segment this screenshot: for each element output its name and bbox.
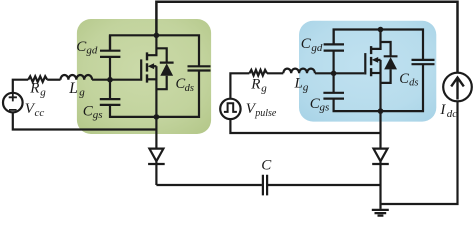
inductor L_g (left) bbox=[61, 75, 93, 80]
svg-text:C: C bbox=[301, 36, 312, 52]
MOSFET Q1 body diode bbox=[156, 48, 173, 89]
MOSFET Q2 source stub bbox=[371, 72, 380, 74]
MOSFET Q2 source vertical bbox=[379, 60, 381, 111]
bottom wire left of C bbox=[156, 184, 262, 186]
capacitor C_gs (left) bbox=[100, 80, 121, 105]
drain node dot (left) bbox=[154, 33, 160, 39]
svg-text:gs: gs bbox=[93, 109, 103, 121]
capacitor C_ds (left) bbox=[188, 66, 211, 70]
svg-text:g: g bbox=[79, 86, 85, 98]
gate node dot (left) bbox=[107, 77, 113, 83]
MOSFET Q1 channel segments bbox=[146, 52, 148, 82]
MOSFET Q2 arrow bbox=[372, 57, 379, 63]
svg-text:L: L bbox=[294, 75, 303, 91]
current source I_dc bbox=[443, 73, 472, 102]
bottom wire right of C bbox=[267, 184, 380, 186]
MOSFET Q1 gate plate bbox=[140, 59, 142, 80]
MOSFET Q2 body stub bbox=[378, 59, 381, 61]
svg-text:ds: ds bbox=[409, 78, 418, 89]
capacitor C_ds (right) bbox=[412, 60, 435, 64]
svg-text:gs: gs bbox=[320, 102, 330, 114]
svg-text:I: I bbox=[439, 102, 446, 118]
svg-text:C: C bbox=[261, 158, 272, 174]
svg-text:g: g bbox=[40, 87, 46, 99]
MOSFET Q2 channel segments bbox=[370, 46, 372, 76]
capacitor C_gd (right) bbox=[324, 30, 344, 74]
MOSFET Q2 drain stub bbox=[371, 30, 380, 49]
svg-text:gd: gd bbox=[311, 42, 323, 54]
wire resistor to inductor (right) bbox=[267, 72, 283, 74]
MOSFET Q1 arrow bbox=[148, 63, 155, 69]
capacitor C (DC-link) bbox=[263, 175, 267, 196]
inductor L_g (right) bbox=[283, 69, 315, 74]
MOSFET Q1 source vertical bbox=[155, 66, 157, 117]
capacitor C_gd (left) bbox=[100, 35, 120, 79]
MOSFET Q2 body diode bbox=[381, 42, 398, 83]
bottom rail of right block bbox=[334, 64, 423, 111]
blue highlight block (right device region) bbox=[299, 21, 436, 122]
MOSFET Q1 drain stub bbox=[147, 35, 156, 55]
svg-text:C: C bbox=[399, 71, 409, 87]
source down wire (right) bbox=[379, 111, 381, 148]
svg-text:pulse: pulse bbox=[254, 108, 277, 119]
V_cc return wire bbox=[13, 112, 157, 129]
resistor R_g (left) bbox=[28, 76, 47, 82]
svg-text:ds: ds bbox=[185, 83, 194, 94]
MOSFET Q2 gate plate bbox=[364, 53, 366, 74]
I_dc arrow bbox=[451, 78, 464, 100]
wire resistor to inductor (left) bbox=[47, 79, 60, 81]
svg-text:cc: cc bbox=[35, 107, 45, 119]
ground bbox=[372, 210, 389, 216]
svg-text:g: g bbox=[303, 81, 309, 93]
svg-text:gd: gd bbox=[86, 45, 98, 57]
svg-text:L: L bbox=[68, 80, 78, 97]
top rail of right block bbox=[334, 30, 423, 60]
source down wire (left) bbox=[155, 117, 157, 148]
voltage source V_cc bbox=[3, 93, 23, 113]
green highlight block (left device region) bbox=[77, 19, 211, 134]
svg-text:g: g bbox=[261, 83, 267, 95]
resistor R_g (right) bbox=[249, 70, 267, 76]
drain node dot (right) bbox=[378, 27, 384, 33]
V_pulse pulse glyph bbox=[224, 103, 237, 112]
gate node dot (right) bbox=[331, 71, 337, 77]
diode D2 (right leg) bbox=[374, 149, 388, 162]
wire inductor to gate (right) bbox=[315, 72, 364, 74]
svg-text:R: R bbox=[29, 81, 39, 97]
diode D1 (left leg) bbox=[149, 149, 163, 162]
wire diode D2 to ground bbox=[379, 164, 381, 209]
bottom rail of left block bbox=[110, 71, 199, 117]
wire Vcc top to gate path bbox=[13, 80, 28, 93]
V_cc minus sign bbox=[9, 109, 17, 111]
MOSFET Q1 source stub bbox=[147, 78, 156, 80]
top rail of left block bbox=[110, 35, 199, 66]
source node dot (right) bbox=[378, 108, 384, 114]
wire inductor to gate (left) bbox=[92, 79, 140, 81]
svg-text:R: R bbox=[250, 77, 260, 93]
capacitor C_gs (right) bbox=[323, 73, 344, 98]
top wire (DC bus from left drain to Idc) bbox=[156, 2, 457, 73]
pulse source V_pulse bbox=[220, 99, 240, 119]
I_dc bottom return wire bbox=[381, 101, 458, 204]
MOSFET Q1 body stub bbox=[154, 65, 157, 67]
source node dot (left) bbox=[154, 114, 160, 120]
V_cc plus sign bbox=[9, 93, 17, 101]
svg-text:dc: dc bbox=[447, 108, 458, 120]
wire Vpulse top to gate path bbox=[230, 73, 249, 99]
V_pulse return wire bbox=[230, 119, 380, 133]
